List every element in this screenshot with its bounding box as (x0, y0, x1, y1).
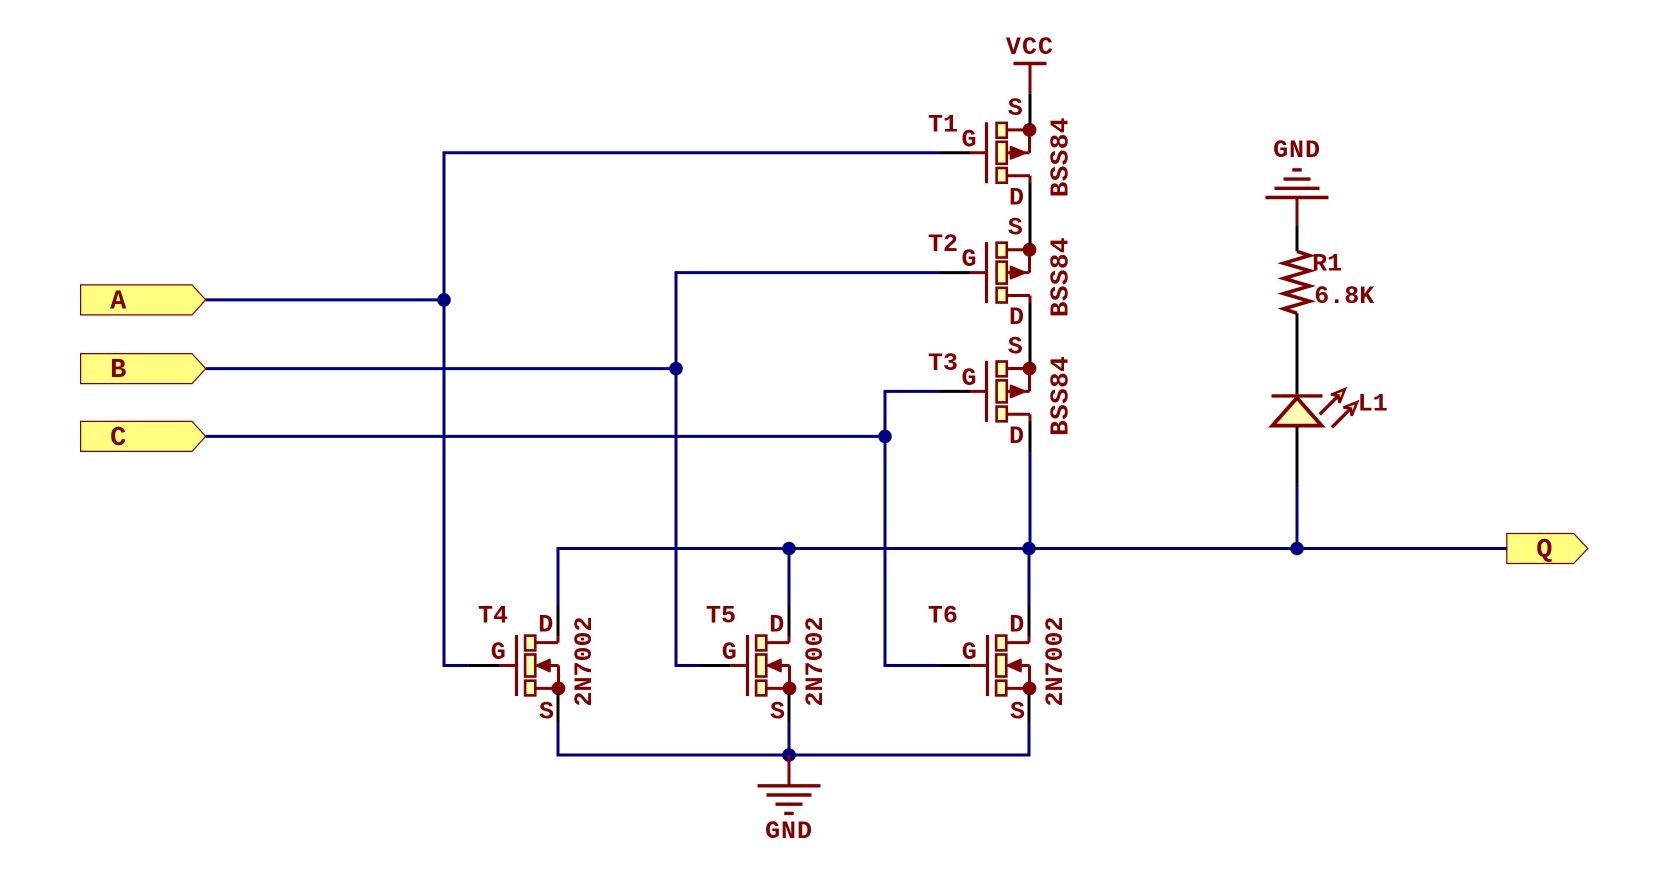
svg-text:Q: Q (1536, 536, 1552, 566)
svg-text:G: G (962, 364, 977, 393)
transistor T1 (BSS84 P-channel MOSFET) (928, 93, 1076, 213)
svg-text:D: D (538, 611, 553, 640)
svg-text:S: S (1010, 698, 1025, 727)
wire node Q down to T4 drain (557, 547, 560, 606)
svg-text:D: D (1009, 303, 1024, 332)
svg-text:T1: T1 (928, 110, 958, 139)
svg-text:2N7002: 2N7002 (1041, 616, 1070, 706)
svg-text:A: A (110, 288, 127, 318)
wire GND rail horizontal (558, 754, 1029, 757)
wire net C to T6 gate (884, 664, 941, 667)
svg-text:VCC: VCC (1006, 33, 1054, 62)
svg-text:S: S (1008, 94, 1023, 123)
svg-text:L1: L1 (1358, 390, 1388, 419)
svg-text:G: G (491, 638, 506, 667)
wire net B vertical (675, 273, 678, 666)
svg-text:S: S (1008, 214, 1023, 243)
svg-text:G: G (962, 245, 977, 274)
svg-text:BSS84: BSS84 (1046, 237, 1076, 317)
svg-text:S: S (1008, 332, 1023, 361)
net flag C (81, 421, 206, 454)
L1 light arrow 1 (1331, 389, 1345, 403)
svg-text:BSS84: BSS84 (1046, 117, 1076, 197)
LED L1 (1272, 389, 1388, 427)
transistor T3 (BSS84 P-channel MOSFET) (928, 332, 1076, 452)
output flag Q (1507, 534, 1588, 567)
svg-text:B: B (110, 356, 126, 386)
wire net B horizontal (206, 367, 676, 370)
wire net A to T4 gate (443, 664, 470, 667)
svg-text:6.8K: 6.8K (1314, 282, 1374, 311)
transistor T2 (BSS84 P-channel MOSFET) (928, 213, 1076, 333)
svg-text:R1: R1 (1312, 250, 1342, 279)
wire net A horizontal (206, 298, 444, 301)
svg-text:GND: GND (765, 817, 813, 846)
svg-text:T2: T2 (928, 230, 958, 259)
wire net C to T3 gate (884, 390, 941, 393)
svg-text:G: G (962, 125, 977, 154)
svg-text:S: S (539, 698, 554, 727)
junction node C (878, 430, 892, 444)
svg-text:G: G (962, 638, 977, 667)
wire node Q down to T6 drain (1028, 549, 1031, 606)
wire net Q horizontal (558, 547, 1507, 550)
svg-text:T4: T4 (478, 602, 508, 631)
wire node Q down to T5 drain (788, 549, 791, 606)
wire T4 source to GND rail (557, 723, 560, 757)
net flag A (81, 285, 206, 318)
wire GND to R1 (1296, 226, 1299, 251)
svg-text:D: D (1009, 611, 1024, 640)
transistor T6 (2N7002 N-channel MOSFET) (928, 602, 1070, 727)
wire net B to T2 gate (675, 271, 941, 274)
wire T6 source to GND rail (1028, 723, 1031, 757)
wire T5 source to GND rail (788, 723, 791, 756)
svg-text:C: C (110, 424, 126, 454)
resistor R1 (1284, 250, 1375, 314)
L1 light arrow 2 (1344, 402, 1358, 416)
svg-text:T3: T3 (928, 349, 958, 378)
wire net C horizontal (206, 435, 885, 438)
svg-text:D: D (769, 611, 784, 640)
junction node A (437, 293, 451, 307)
net flag B (81, 354, 206, 387)
ground symbol GND (bottom) (758, 755, 821, 846)
transistor T4 (2N7002 N-channel MOSFET) (469, 602, 599, 727)
junction node Q at T5 drain (782, 542, 796, 556)
junction node B (669, 362, 683, 376)
wire net C vertical (884, 391, 887, 665)
wire LED to node Q (1296, 427, 1299, 483)
svg-text:2N7002: 2N7002 (570, 616, 599, 706)
wire R1 to LED L1 (1296, 313, 1299, 394)
svg-text:D: D (1009, 422, 1024, 451)
svg-text:T6: T6 (928, 602, 958, 631)
svg-text:T5: T5 (706, 602, 736, 631)
svg-text:GND: GND (1273, 136, 1321, 165)
transistor T5 (2N7002 N-channel MOSFET) (700, 602, 830, 727)
junction GND rail (782, 748, 796, 762)
svg-text:D: D (1009, 183, 1024, 212)
wire net A vertical (443, 153, 446, 666)
svg-text:2N7002: 2N7002 (801, 616, 830, 706)
wire net B to T5 gate (675, 664, 701, 667)
ground symbol GND (upper right) (1266, 136, 1329, 226)
svg-text:G: G (722, 638, 737, 667)
wire net A to T1 gate (443, 151, 941, 154)
power symbol VCC (1006, 33, 1054, 93)
junction node Q at T3/T6 column (1022, 542, 1036, 556)
wire T3 drain to node Q (1029, 451, 1032, 548)
svg-text:S: S (770, 698, 785, 727)
svg-text:BSS84: BSS84 (1046, 356, 1076, 436)
junction node Q at LED branch (1290, 542, 1304, 556)
